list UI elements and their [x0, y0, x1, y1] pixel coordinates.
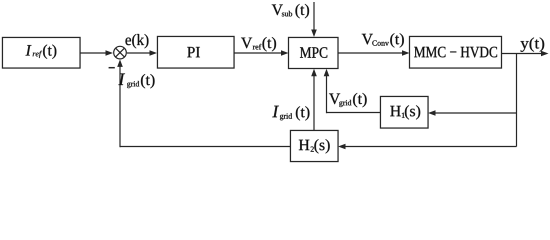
block MMC-HVDC: [410, 36, 502, 68]
label e(k): [125, 34, 148, 48]
label Igrid(t) near summing junction: [118, 74, 154, 89]
wire H2 top to MPC bottom (Igrid measurement): [311, 69, 317, 130]
label Vref(t): [241, 37, 276, 51]
wire feedback to H2: [338, 144, 517, 150]
wire Vsub into MPC top: [311, 2, 317, 37]
block PI: [157, 36, 234, 68]
wire feedback to H1: [428, 110, 517, 116]
block Iref(t): [2, 37, 80, 68]
wire summing junction to PI: [127, 50, 157, 56]
wire H1 out to MPC bottom (Vgrid): [324, 69, 380, 114]
wire output y(t): [502, 51, 549, 57]
label y(t): [521, 37, 545, 51]
minus sign at summing junction: [109, 67, 115, 69]
wire PI to MPC: [234, 50, 289, 56]
wire MPC to MMC-HVDC: [338, 50, 410, 56]
label Vsub(t): [272, 4, 309, 18]
label Vgrid(t): [329, 93, 367, 107]
block H2: [290, 130, 338, 161]
label Igrid(t) near MPC: [272, 106, 309, 121]
wire feedback vertical from output: [516, 54, 518, 147]
block H1: [380, 96, 428, 128]
label VConv(t): [362, 33, 404, 47]
wire H2 out to summing junction: [117, 59, 290, 147]
summing junction (circle with X): [114, 46, 127, 59]
wire Iref to summing junction: [80, 50, 113, 56]
block MPC: [289, 37, 339, 68]
